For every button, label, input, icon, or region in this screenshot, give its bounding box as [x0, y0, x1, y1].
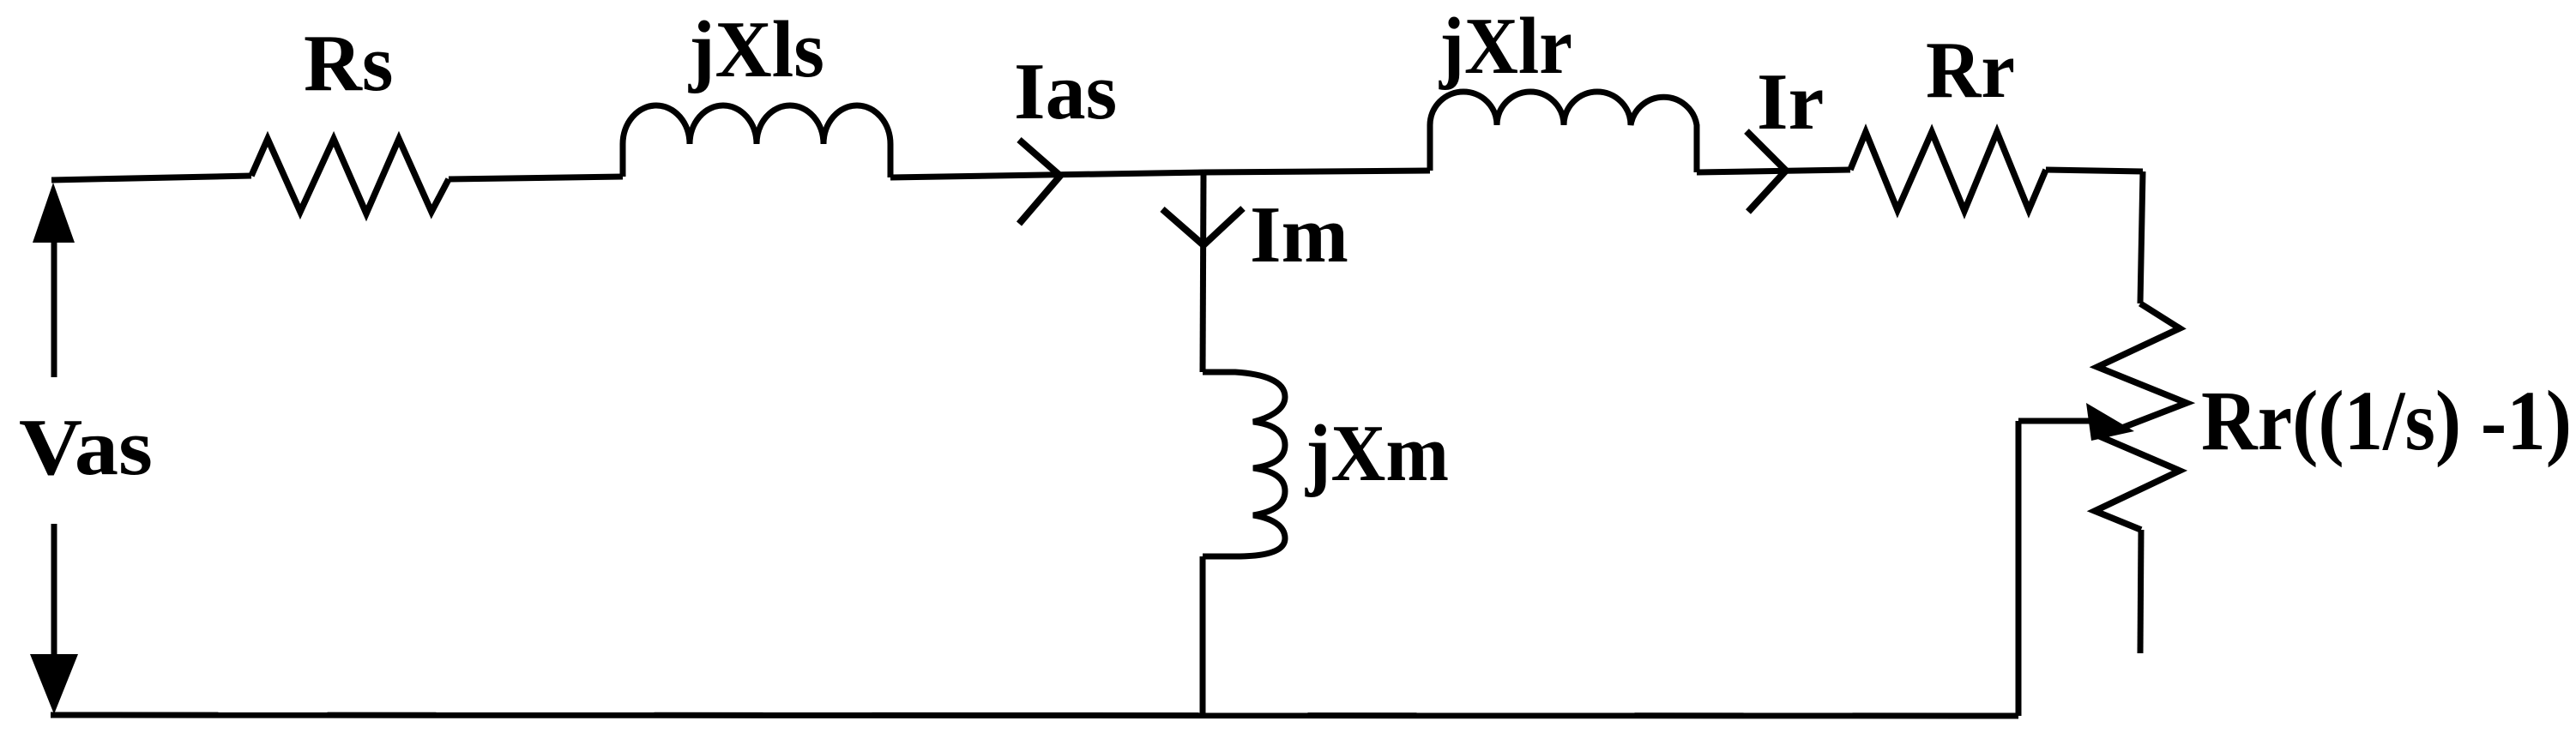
wire wiper horizontal	[2018, 418, 2106, 424]
inductor jXlr	[1430, 92, 1697, 172]
node A junction	[1204, 171, 1430, 172]
arrowhead Vas up	[33, 183, 75, 243]
wire Vas shaft lower	[51, 524, 57, 658]
wire wiper vertical	[2016, 421, 2022, 716]
svg-text:Rr((1/s) -1): Rr((1/s) -1)	[2201, 373, 2572, 468]
arrow Im	[1162, 208, 1243, 245]
arrow Ir	[1746, 131, 1786, 212]
resistor Rr	[1850, 132, 2046, 211]
wire top-left horizontal	[51, 176, 251, 180]
svg-text:Rs: Rs	[304, 19, 393, 108]
svg-text:Vas: Vas	[19, 403, 153, 492]
svg-text:jXlr: jXlr	[1439, 2, 1572, 91]
wire jXm to bottom	[1200, 556, 1206, 715]
resistor Rs	[251, 139, 449, 213]
arrowhead wiper	[2086, 403, 2134, 441]
svg-text:Ir: Ir	[1757, 57, 1824, 147]
wire node A down	[1203, 172, 1204, 372]
svg-text:Rr: Rr	[1926, 26, 2015, 115]
wire jXls to node A	[890, 172, 1204, 177]
wire resistor bottom lead	[2140, 530, 2141, 653]
arrowhead Vas down	[30, 654, 78, 714]
wire Vas shaft upper	[51, 237, 57, 377]
arrow Ias	[1019, 140, 1060, 224]
svg-text:Ias: Ias	[1014, 47, 1117, 136]
inductor jXls	[623, 105, 890, 177]
inductor jXm	[1203, 372, 1285, 556]
wire bottom horizontal	[51, 715, 2018, 716]
resistor Rr((1/s)-1) variable	[2095, 303, 2187, 530]
svg-text:jXls: jXls	[688, 5, 824, 94]
wire right vertical	[2140, 171, 2143, 303]
wire Rr to right corner	[2046, 170, 2143, 171]
wire jXlr to Rr	[1697, 170, 1850, 172]
svg-text:Im: Im	[1250, 190, 1348, 279]
svg-text:jXm: jXm	[1305, 409, 1449, 498]
wire Rs to jXls	[449, 177, 623, 179]
